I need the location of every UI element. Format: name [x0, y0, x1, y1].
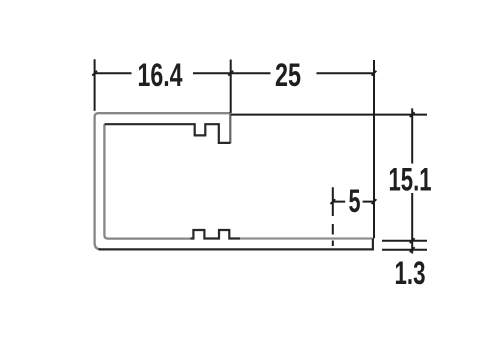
svg-text:25: 25 — [275, 57, 301, 93]
profile top-right lip outer vertical — [229, 113, 231, 143]
top extension line for 15.1 — [231, 114, 427, 116]
oblique tick marks at dimension junctions — [92, 71, 414, 252]
extension line right of 25 down to bottom wall — [373, 60, 375, 238]
profile bottom wall bumps (dark) — [191, 230, 241, 239]
profile bottom wall bottom edge and right end (dark) — [99, 238, 373, 249]
profile top wall inner edge with notch and lip (dark) — [105, 124, 231, 143]
svg-text:5: 5 — [349, 183, 361, 219]
horizontal dimension line for 16.4 and 25 — [95, 72, 374, 74]
dimension line for 5 — [333, 201, 374, 203]
vertical dimension line for 15.1 and 1.3 — [411, 108, 413, 253]
dashed extension line left of 5 — [332, 187, 334, 246]
svg-text:1.3: 1.3 — [395, 255, 426, 291]
extension line left of 16.4 — [94, 59, 96, 111]
profile bottom wall top edge right portion (grey) — [240, 237, 372, 239]
profile outer left and top edge (grey) — [95, 113, 230, 249]
svg-text:15.1: 15.1 — [389, 161, 432, 197]
extension line between 16.4 and 25 — [230, 60, 232, 114]
extension lines for 1.3 — [382, 241, 427, 250]
profile inner left edge (grey) — [104, 124, 191, 238]
svg-text:16.4: 16.4 — [138, 57, 183, 93]
